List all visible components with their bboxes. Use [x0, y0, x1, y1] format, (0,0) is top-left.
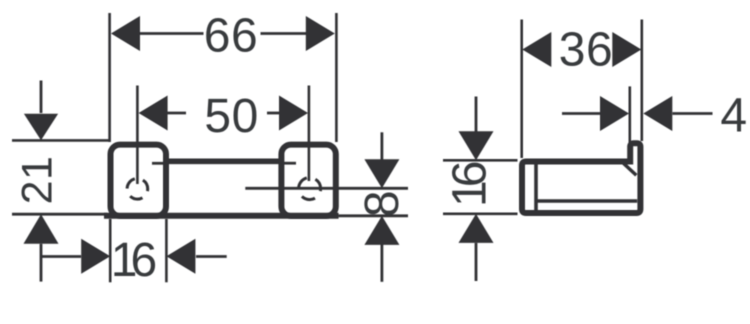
- svg-text:36: 36: [559, 24, 613, 77]
- svg-text:16: 16: [111, 234, 156, 287]
- svg-text:4: 4: [720, 89, 747, 142]
- svg-text:50: 50: [204, 90, 258, 143]
- svg-text:66: 66: [204, 10, 258, 63]
- svg-text:8: 8: [356, 190, 409, 217]
- svg-text:21: 21: [14, 156, 62, 205]
- svg-text:16: 16: [443, 162, 496, 207]
